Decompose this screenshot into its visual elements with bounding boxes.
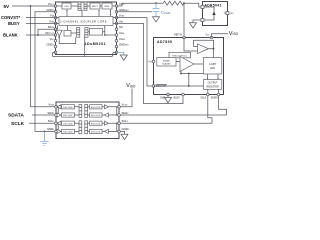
isolator U1 ADuM5201 body — [56, 2, 117, 55]
U2 row2 channel — [57, 113, 118, 117]
svg-text:SCALING: SCALING — [162, 63, 171, 66]
iCoupler core banner — [59, 17, 113, 26]
svg-text:REF IN: REF IN — [174, 33, 182, 36]
isolator U2 ADuM1250 body — [56, 102, 119, 139]
svg-text:14-BIT: 14-BIT — [209, 63, 217, 66]
wire REFIN drop — [183, 3, 185, 36]
wire core-to-top stubs — [66, 9, 111, 16]
U1 left pin labels — [46, 2, 55, 47]
wire BUSY route U4 to U1 VIB — [113, 23, 183, 103]
wire SCLK route U4 to U2 — [119, 96, 212, 123]
U1 right pin labels — [119, 2, 129, 47]
U4 bottom pin labels — [160, 97, 218, 100]
svg-text:VISO: VISO — [229, 31, 239, 37]
wire transformer tap to rail — [84, 35, 86, 57]
wire ADC to register arrows — [207, 74, 219, 80]
svg-text:SCLK: SCLK — [200, 98, 206, 100]
wire riser to amp — [180, 71, 182, 74]
svg-text:BUSY: BUSY — [8, 21, 20, 26]
ground earth symbol — [41, 142, 49, 146]
svg-text:NC: NC — [119, 25, 123, 29]
wire U3 anode to ground — [193, 20, 201, 23]
U3 internal wires — [204, 7, 226, 20]
U4 pin VDD — [210, 36, 213, 39]
wire feedback riser into banner — [103, 26, 117, 36]
U2 right pin labels — [122, 103, 130, 132]
wire riser control — [188, 74, 190, 87]
svg-text:RECT: RECT — [92, 6, 99, 8]
power transformer T1 — [78, 2, 87, 10]
svg-text:DECODE: DECODE — [63, 107, 73, 109]
svg-text:DECODE: DECODE — [91, 115, 101, 117]
svg-text:NC: NC — [231, 13, 235, 15]
output register block — [203, 80, 221, 90]
node REFIN junction — [183, 2, 185, 4]
wire R1 to ADR5041 — [184, 3, 201, 7]
svg-text:ENCODE: ENCODE — [63, 132, 73, 134]
rect block row2 — [89, 28, 102, 35]
U3 pin 3 NC — [226, 12, 229, 15]
U1 left pins — [54, 5, 57, 54]
node control amp — [180, 73, 182, 75]
U1 right pins — [115, 5, 118, 54]
ground GNDISO triangle — [120, 55, 127, 60]
reference buffer A1 — [184, 38, 214, 58]
U2 left pin labels — [47, 103, 55, 132]
rectifier RECT block — [90, 3, 100, 9]
wire feedback loop row3 — [59, 37, 75, 43]
wire U2 GND2 stub — [119, 131, 125, 134]
track/hold block — [169, 52, 191, 58]
U4 pin VIN — [152, 60, 155, 63]
svg-text:SDATA: SDATA — [8, 113, 24, 119]
schmitt driver PWM — [56, 26, 67, 38]
wire VDD to VISO — [212, 34, 229, 38]
U2 transformer column upper — [79, 104, 88, 117]
svg-text:2-CHANNEL iCOUPLER CORE: 2-CHANNEL iCOUPLER CORE — [60, 20, 107, 23]
wire U4 GND stub — [167, 95, 169, 98]
svg-text:ENCODE: ENCODE — [63, 115, 73, 117]
svg-text:VISO: VISO — [126, 83, 136, 89]
U2 row4 channel — [57, 129, 118, 133]
wire power row — [56, 5, 117, 7]
voltage reference U3 ADR5041 body — [203, 2, 228, 26]
node BLANK tie — [37, 34, 39, 36]
svg-text:ADuM5201: ADuM5201 — [84, 42, 106, 46]
wire earth stub — [44, 131, 46, 141]
U4 bottom pins — [167, 93, 220, 96]
label CONVST with overbar — [156, 84, 167, 88]
svg-text:ENCODE: ENCODE — [91, 107, 101, 109]
svg-text:AD7895: AD7895 — [157, 40, 172, 44]
ground U4 triangle — [165, 98, 172, 103]
U2 row3 channel — [57, 121, 118, 125]
wire SCLK left — [29, 122, 56, 124]
node GND1 earth junction — [44, 131, 46, 133]
svg-text:SIGNAL: SIGNAL — [163, 59, 170, 62]
svg-text:DECODE: DECODE — [91, 132, 101, 134]
ground U2 GND2 triangle — [121, 134, 128, 139]
wire GNDISO to cap — [117, 11, 153, 13]
resistor R1 — [163, 1, 184, 5]
wire CONVST route U1 VOA to U4 — [113, 18, 152, 86]
svg-text:SCLK: SCLK — [11, 121, 25, 127]
wire row2 links — [71, 32, 89, 33]
svg-text:REG: REG — [105, 6, 110, 8]
diode D1 arrow — [212, 11, 215, 15]
node control mid — [188, 73, 190, 75]
U4 pin CONVST — [152, 85, 155, 88]
signal scaling block — [157, 58, 176, 66]
wire convst control line — [181, 73, 203, 75]
U2 transformer column lower — [79, 121, 88, 134]
amplifier A2 — [176, 57, 203, 72]
svg-text:BUSY: BUSY — [174, 97, 181, 99]
wire BLANK input — [26, 34, 56, 36]
wire VISO rail — [117, 3, 164, 6]
svg-text:CONVST*: CONVST* — [1, 15, 20, 20]
svg-text:ENCODE: ENCODE — [91, 123, 101, 125]
svg-text:SDATA: SDATA — [211, 97, 219, 100]
wire CONVST* input — [26, 17, 59, 19]
wire U2 channel pair links — [58, 107, 118, 132]
wire GND1 rail down to U2 GND1 — [35, 12, 56, 132]
U2 row1 channel — [57, 105, 118, 109]
svg-text:OUTPUT: OUTPUT — [208, 82, 218, 85]
wire CONVST internal — [154, 85, 204, 87]
oscillator OSC block — [62, 3, 71, 9]
switch block row2 — [64, 31, 71, 37]
U3 pin 1 anode — [201, 19, 204, 22]
svg-text:CLOAD: CLOAD — [161, 11, 171, 15]
node convst junction — [188, 85, 190, 87]
wire SDATA left — [32, 114, 56, 116]
wire 5V — [12, 5, 56, 7]
capacitor CLOAD — [153, 3, 171, 17]
U3 pin 2 cathode — [201, 6, 204, 9]
wire RCIN tie — [38, 29, 56, 35]
wire 5V rail down to U2 VDD1 — [31, 6, 57, 107]
ground U3 triangle — [190, 23, 197, 28]
svg-text:5V: 5V — [4, 4, 11, 9]
U2 right pins — [118, 106, 121, 133]
wire VISO to U2 VDD2 — [119, 89, 132, 107]
wire BUSY output — [26, 22, 59, 24]
wire GNDISO blue stub — [117, 52, 124, 55]
U4 pin REF IN — [183, 36, 186, 39]
wire register to pins — [208, 89, 219, 94]
node CLOAD junction — [155, 2, 157, 4]
feedback transformer T2 — [77, 28, 88, 38]
svg-text:DECODE: DECODE — [63, 123, 73, 125]
U2 left pins — [55, 106, 58, 133]
ADC core block — [203, 58, 221, 75]
svg-text:REGISTER: REGISTER — [206, 86, 218, 89]
ADC U4 AD7895 body — [154, 38, 224, 95]
node 5V junction — [30, 5, 32, 7]
svg-text:ADC: ADC — [210, 67, 215, 70]
ground CLOAD triangle — [153, 17, 160, 22]
regulator REG block — [102, 3, 112, 9]
svg-text:OSC: OSC — [64, 6, 69, 8]
wire under-chip GND rail — [52, 52, 116, 56]
wire SDATA route U4 to U2 — [119, 96, 227, 115]
svg-text:BLANK: BLANK — [3, 32, 18, 37]
